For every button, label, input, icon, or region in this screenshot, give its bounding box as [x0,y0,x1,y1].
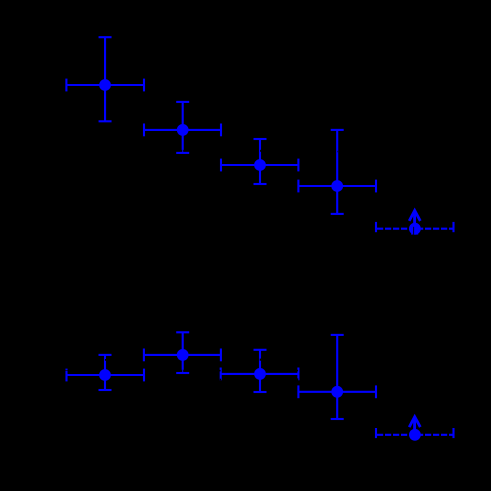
bottom panel data point 3 (bin 3) [221,350,299,392]
bottom panel data point 1 (bin 1) [67,355,145,390]
lower point 5 marker [409,429,421,441]
lower point 4 y-error top cap [331,334,344,336]
top panel data point 3 (bin 3) [221,139,298,184]
point 4 x-error right cap [375,180,377,193]
point 5 x-error left cap [375,222,377,232]
point 3 x-error right cap [297,159,299,172]
point 2 x-error right cap [220,124,222,137]
black curve bite on top panel point 3 error line [260,150,261,152]
lower point 1 marker [99,369,111,381]
point 2 y-error bottom cap [176,152,189,154]
top panel data point 1 (bin 1) [66,37,144,121]
point 1 x-error right cap [143,79,145,92]
lower point 3 x-error bar [221,373,299,375]
lower point 2 x-error bar [144,354,221,356]
lower point 5 arrowhead [409,417,420,427]
point 2 marker [177,124,189,136]
lower point 4 x-error left cap [297,385,299,398]
lower point 1 x-error right cap [143,369,145,382]
lower point 2 x-error left cap [143,349,145,362]
point 4 y-error bar [336,130,338,214]
lower point 4 y-error bottom cap [331,418,344,420]
lower point 2 marker [177,349,189,361]
lower point 4 x-error bar [298,391,376,393]
lower point 2 y-error bottom cap [176,372,189,374]
point 1 x-error bar [66,84,144,86]
point 3 x-error left cap [220,159,222,172]
point 2 y-error top cap [176,101,189,103]
point 5 arrow shaft [413,211,416,229]
point 2 y-error thin lower connector [182,150,184,152]
point 5 marker [409,223,421,235]
lower point 5 x-error left cap [375,428,377,438]
point 1 marker [99,79,111,91]
point 3 marker [254,159,266,171]
black curve bite on bottom panel point 3 error line [260,359,262,361]
point 1 y-error bar [104,37,106,121]
point 4 x-error left cap [297,180,299,193]
top panel data point 2 (bin 2) [144,102,221,153]
lower point 3 y-error top cap [254,349,267,351]
lower point 4 x-error right cap [375,385,377,398]
point 5 small lower cap [411,232,418,234]
point 5 x-error right cap [452,222,454,232]
bottom panel data point 4 (bin 4) [298,335,376,419]
black curve bite on bottom panel point 3 right cap (lower) [297,378,299,381]
top panel data point 4 (bin 4) [298,130,376,214]
point 1 y-error top cap [99,36,112,38]
top panel data point 5 (bin 5, lower-limit marker) [376,211,454,235]
lower point 1 y-error top cap [99,354,112,356]
black curve bite on bottom panel point 3 right cap (upper) [297,370,298,372]
lower point 1 x-error left cap [65,369,67,382]
lower point 2 y-error bar [182,332,184,370]
point 2 x-error left cap [143,124,145,137]
bottom panel data point 5 (bin 5, lower-limit marker) [376,417,454,441]
lower point 3 marker [254,368,266,380]
lower point 1 x-error bar [67,374,145,376]
lower point 1 y-error bottom cap [99,389,112,391]
point 3 y-error bottom cap [254,183,267,185]
lower point 5 dashed x-error bar [377,434,454,436]
lower point 3 y-error bar [259,350,261,392]
lower point 2 x-error right cap [220,349,222,362]
point 5 arrowhead [409,211,420,221]
lower point 4 marker [331,386,343,398]
lower point 2 y-error thin lower connector [182,370,184,373]
point 3 y-error bar [259,139,261,184]
lower point 5 arrow shaft [413,417,416,435]
lower point 3 y-error bottom cap [254,391,267,393]
lower point 5 x-error right cap [452,428,454,438]
point 4 y-error top cap [331,129,344,131]
point 4 marker [331,180,343,192]
black curve slit through top panel point 5 marker [412,227,415,235]
point 2 y-error bar [182,102,184,150]
point 3 y-error top cap [254,138,267,140]
point 4 y-error bottom cap [331,213,344,215]
point 2 x-error bar [144,129,221,131]
point 4 x-error bar [298,185,376,187]
point 3 x-error bar [221,164,298,166]
point 5 dashed x-error bar [377,228,454,230]
black curve bite on top panel point 4 error line (faint) [336,151,339,153]
point 1 x-error left cap [65,79,67,92]
lower point 4 y-error bar [336,335,338,419]
lower point 3 x-error right cap [297,368,299,381]
bottom panel data point 2 (bin 2) [144,332,221,373]
black curve bite on bottom panel point 1 error line [105,359,106,361]
black curve bite on bottom panel point 3 left cap (upper) [220,370,221,372]
black curve bite on bottom panel point 1 left cap [65,369,68,372]
lower point 2 y-error top cap [176,331,189,333]
lower point 1 y-error bar [104,355,106,390]
lower point 3 x-error left cap [220,368,222,381]
point 1 y-error bottom cap [99,120,112,122]
black curve bite on bottom panel point 3 left cap (lower) [220,379,221,381]
